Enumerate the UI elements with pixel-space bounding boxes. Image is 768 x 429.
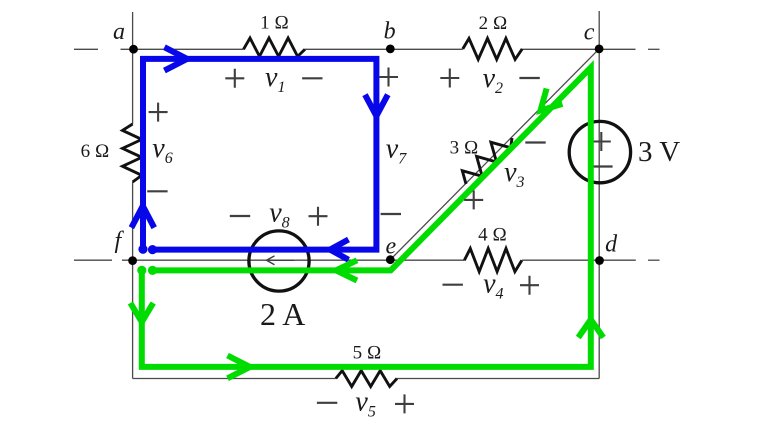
dash right of node c	[648, 48, 660, 50]
v6 minus	[147, 190, 167, 192]
svg-text:c: c	[584, 19, 595, 45]
v7 minus	[381, 213, 401, 215]
green loop end dot	[137, 266, 146, 275]
svg-text:2 Ω: 2 Ω	[479, 13, 508, 34]
green arrow down-left (diagonal)	[541, 89, 563, 111]
v5 minus	[317, 402, 337, 404]
v7 plus	[379, 68, 398, 87]
v5 plus	[395, 394, 414, 413]
v4 minus	[443, 284, 463, 286]
voltage source plus	[592, 132, 611, 151]
svg-text:a: a	[113, 19, 125, 45]
svg-text:b: b	[384, 18, 396, 44]
svg-text:6 Ω: 6 Ω	[81, 141, 110, 162]
resistor R2 2ohm	[463, 38, 522, 59]
dash right of node d	[648, 259, 660, 261]
v2 minus	[519, 77, 539, 79]
current source I1 2A circle	[249, 231, 309, 291]
v3 plus	[464, 190, 483, 209]
green loop wire	[142, 68, 591, 367]
current source inner arrow	[267, 256, 295, 265]
wire right vertical c-d-bottom	[598, 11, 600, 379]
svg-text:2 A: 2 A	[260, 296, 305, 332]
resistor R1 1ohm	[244, 38, 306, 56]
svg-text:1 Ω: 1 Ω	[260, 12, 289, 33]
v4 plus	[520, 276, 539, 295]
wire middle row f-e-d	[122, 259, 636, 261]
node c dot	[595, 45, 604, 54]
blue loop wire	[143, 59, 376, 250]
blue loop start dot	[148, 245, 157, 254]
wire bottom	[133, 378, 600, 380]
svg-text:4 Ω: 4 Ω	[478, 225, 507, 246]
node b dot	[386, 45, 395, 54]
v1 minus	[302, 77, 322, 79]
blue arrow up (left side)	[131, 206, 154, 228]
green arrow down (left side)	[130, 303, 153, 322]
wire diagonal c-e	[390, 49, 599, 260]
v3 minus	[525, 141, 545, 143]
resistor R4 4ohm	[464, 249, 522, 272]
node d dot	[595, 256, 604, 265]
green arrow left (middle row)	[336, 260, 357, 280]
node e dot	[386, 255, 395, 264]
svg-text:e: e	[386, 233, 397, 259]
green arrow up (right side)	[578, 320, 603, 338]
blue arrow left (bottom)	[330, 240, 349, 260]
v8 minus	[230, 215, 250, 217]
voltage source V1 3V circle	[569, 121, 630, 182]
green loop start dot	[148, 266, 157, 275]
v2 plus	[440, 69, 459, 88]
svg-text:5 Ω: 5 Ω	[353, 342, 382, 363]
green arrow right (bottom)	[228, 356, 251, 379]
voltage source minus	[592, 165, 613, 167]
resistor R6 6ohm	[123, 124, 142, 182]
svg-text:3 V: 3 V	[638, 136, 680, 168]
wire top row a-b-c	[121, 48, 636, 50]
wire left vertical a-f-bottom	[132, 12, 134, 379]
svg-text:3 Ω: 3 Ω	[450, 138, 479, 159]
dash left of node f	[74, 259, 112, 261]
svg-text:d: d	[605, 231, 618, 257]
v8 plus	[309, 207, 328, 226]
blue loop end dot	[138, 245, 147, 254]
v6 plus	[149, 103, 168, 122]
dash left of node a	[74, 48, 98, 50]
blue arrow down (right side)	[365, 95, 388, 116]
node f dot	[128, 256, 137, 265]
resistor R3 3ohm diagonal	[462, 138, 512, 184]
blue arrow right (top)	[164, 47, 187, 70]
v1 plus	[225, 69, 244, 88]
node a dot	[129, 45, 138, 54]
resistor R5 5ohm	[336, 371, 397, 387]
